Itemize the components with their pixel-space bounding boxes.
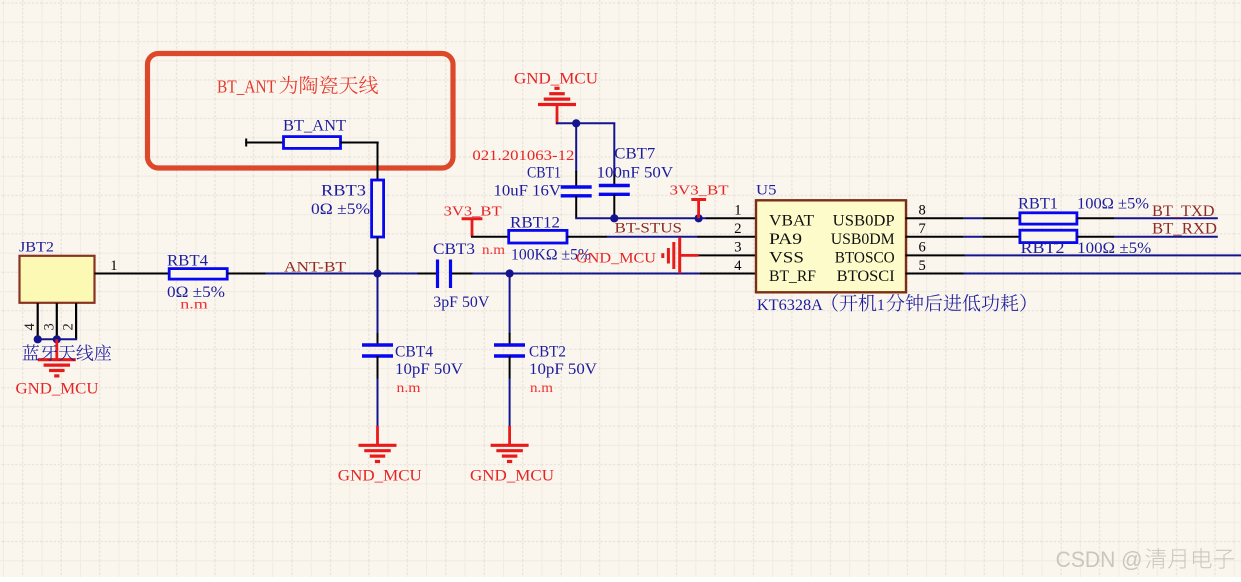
svg-text:CSDN @: CSDN @	[1056, 547, 1143, 572]
wire (to U5 pin 4)	[700, 273, 757, 275]
wire (pin8 to RBT1)	[964, 217, 982, 219]
pin 6 stub	[906, 254, 965, 256]
wire (pin7 to RBT2)	[964, 236, 982, 238]
junction (CBT2 tap)	[506, 269, 514, 277]
wire (CBT3 to CBT2 junction)	[473, 273, 511, 275]
svg-text:U5: U5	[756, 183, 777, 199]
wire (CBT4 to ground)	[377, 379, 379, 427]
resistor RBT1 body	[1020, 213, 1077, 224]
svg-text:0Ω ±5%: 0Ω ±5%	[311, 201, 370, 218]
svg-text:2: 2	[61, 323, 77, 330]
capacitor CBT4 bottom pin	[377, 356, 379, 379]
svg-text:100nF 50V: 100nF 50V	[597, 165, 674, 182]
capacitor CBT3 plates	[438, 260, 451, 289]
svg-text:GND_MCU: GND_MCU	[338, 468, 422, 485]
watermark CSDN @清月电子	[1056, 547, 1235, 572]
svg-text:BTOSCI: BTOSCI	[837, 268, 895, 285]
junction (pin4/gnd wire)	[34, 335, 42, 343]
svg-text:4: 4	[734, 258, 742, 274]
svg-text:3: 3	[41, 323, 57, 330]
svg-text:100Ω ±5%: 100Ω ±5%	[1077, 196, 1149, 213]
svg-text:CBT4: CBT4	[395, 344, 433, 361]
svg-text:n.m: n.m	[530, 381, 553, 396]
wire (pin5 to edge)	[964, 273, 1241, 275]
label 蓝牙天线座	[23, 344, 112, 361]
wire (junction to CBT3)	[378, 273, 419, 275]
pin 5 stub	[906, 273, 964, 275]
svg-text:RBT1: RBT1	[1018, 196, 1058, 213]
svg-text:GND_MCU: GND_MCU	[16, 381, 99, 398]
label 021.201063-12	[472, 148, 574, 164]
wire BT-STUS	[607, 236, 699, 238]
connector JBT2 body	[20, 256, 95, 303]
power 3V3_BT (RBT12)	[462, 219, 483, 237]
svg-text:BT_ANT: BT_ANT	[217, 77, 276, 97]
capacitor CBT3 left pin	[418, 273, 436, 275]
resistor RBT2 left pin	[982, 236, 1020, 238]
svg-text:KT6328A: KT6328A	[757, 297, 824, 314]
wire (RBT4 right pin)	[227, 273, 266, 275]
svg-text:CBT2: CBT2	[529, 344, 566, 361]
wire joining pins 2,3,4	[37, 338, 77, 340]
svg-text:1: 1	[734, 203, 741, 219]
capacitor CBT4 top pin	[377, 333, 379, 345]
svg-text:1: 1	[877, 297, 885, 314]
svg-text:3V3_BT: 3V3_BT	[444, 205, 503, 220]
resistor RBT2 right pin	[1077, 236, 1115, 238]
svg-text:10pF 50V: 10pF 50V	[529, 361, 598, 378]
wire (3V3_BT to RBT12)	[471, 236, 509, 238]
pin 4 of JBT2	[22, 303, 38, 339]
capacitor CBT2 plates	[494, 345, 525, 356]
pin 2 of JBT2	[61, 303, 77, 339]
note text BT_ANT为陶瓷天线	[217, 76, 378, 97]
capacitor CBT1 top pin	[575, 171, 577, 187]
svg-text:3: 3	[734, 240, 741, 256]
label KT6328A（开机1分钟后进低功耗）	[757, 294, 1026, 314]
svg-text:CBT3: CBT3	[433, 241, 475, 258]
resistor RBT12 right pin	[567, 236, 607, 238]
ground GND_MCU stub (CBT2)	[508, 426, 511, 445]
svg-text:RBT12: RBT12	[510, 215, 560, 232]
pin 7 stub	[906, 236, 964, 238]
svg-text:USB0DP: USB0DP	[833, 213, 895, 230]
svg-text:5: 5	[919, 258, 926, 274]
resistor RBT1 right pin	[1077, 217, 1115, 219]
resistor RBT3 body	[372, 180, 384, 237]
svg-text:021.201063-12: 021.201063-12	[472, 148, 574, 164]
wire (left stub of BT_ANT)	[245, 139, 283, 147]
ground GND_MCU symbol (top, inverted)	[538, 88, 576, 104]
capacitor CBT2 top pin	[509, 333, 511, 345]
svg-text:GND_MCU: GND_MCU	[470, 468, 554, 485]
ground GND_MCU symbol (CBT4)	[359, 445, 397, 461]
capacitor CBT4 plates	[362, 345, 393, 356]
wire (U5 pin1 stub)	[706, 217, 757, 219]
resistor RBT4 body	[169, 269, 227, 280]
capacitor CBT1 bottom pin	[575, 196, 577, 219]
wire (CBT2 to ground)	[509, 379, 511, 427]
svg-text:6: 6	[919, 240, 926, 256]
capacitor CBT7 top pin	[613, 171, 615, 186]
wire (down to CBT4)	[377, 274, 379, 335]
pin 8 stub	[906, 217, 964, 219]
junction (ANT-BT / RBT3 / CBT4)	[373, 269, 381, 277]
capacitor CBT7 bottom pin	[613, 194, 615, 218]
svg-text:GND_MCU: GND_MCU	[576, 251, 656, 267]
wire (to U5 pin 3)	[698, 254, 756, 256]
capacitor CBT7 plates	[599, 186, 630, 195]
wire (top gnd rail)	[556, 123, 615, 172]
svg-text:RBT4: RBT4	[167, 253, 208, 270]
junction (CBT7 bottom)	[610, 214, 618, 222]
svg-text:7: 7	[919, 221, 926, 237]
svg-text:VBAT: VBAT	[769, 213, 814, 230]
pin 1 of JBT2	[95, 258, 170, 274]
svg-text:CBT1: CBT1	[527, 165, 561, 182]
resistor RBT2 body	[1020, 230, 1077, 242]
wire BT_TXD	[1115, 217, 1218, 219]
ground GND_MCU symbol (JBT2)	[38, 360, 76, 376]
capacitor CBT1 plates	[561, 187, 592, 196]
resistor RBT12 body	[509, 230, 567, 243]
svg-text:3V3_BT: 3V3_BT	[670, 184, 730, 199]
capacitor CBT3 right pin	[452, 273, 473, 275]
junction (CBT1 top)	[572, 119, 580, 127]
wire (down to CBT2)	[509, 274, 511, 335]
svg-text:RBT3: RBT3	[321, 183, 366, 200]
svg-text:n.m: n.m	[180, 298, 208, 313]
svg-text:8: 8	[919, 203, 926, 219]
wire (junction to U5 pin 4)	[510, 273, 707, 275]
svg-text:3pF 50V: 3pF 50V	[433, 294, 490, 311]
wire (RBT3 bottom pin)	[377, 237, 379, 274]
wire (pin6 to edge)	[965, 254, 1241, 256]
ground GND_MCU stub (JBT2)	[55, 339, 58, 359]
svg-text:n.m: n.m	[397, 381, 421, 396]
wire (right of BT_ANT, corner down)	[341, 142, 379, 181]
note box (red rounded rectangle)	[148, 54, 454, 169]
svg-text:10uF 16V: 10uF 16V	[494, 183, 562, 200]
wire BT_RXD	[1115, 236, 1218, 238]
svg-text:JBT2: JBT2	[19, 240, 54, 256]
IC U5 body	[756, 200, 906, 292]
svg-text:1: 1	[110, 258, 117, 274]
svg-text:BT_TXD: BT_TXD	[1152, 203, 1215, 220]
svg-text:VSS: VSS	[769, 250, 804, 267]
junction (3V3_BT tap)	[695, 214, 703, 222]
ground GND_MCU symbol (U5 pin3, rotated)	[663, 237, 699, 273]
svg-text:PA9: PA9	[769, 231, 802, 248]
svg-text:BT-STUS: BT-STUS	[615, 221, 683, 237]
svg-text:USB0DM: USB0DM	[831, 231, 895, 248]
svg-text:BT_RF: BT_RF	[769, 268, 816, 285]
svg-text:GND_MCU: GND_MCU	[514, 71, 598, 88]
svg-text:4: 4	[22, 323, 38, 331]
svg-text:10pF 50V: 10pF 50V	[395, 361, 464, 378]
capacitor CBT2 bottom pin	[509, 356, 511, 379]
svg-text:CBT7: CBT7	[614, 146, 655, 163]
wire (to U5 pin 2)	[698, 236, 757, 238]
wire ANT-BT (RBT4 to RBT3 junction)	[266, 273, 379, 275]
resistor RBT1 left pin	[982, 217, 1020, 219]
junction (pin3/gnd wire)	[53, 335, 61, 343]
ground GND_MCU symbol (CBT2)	[491, 445, 529, 461]
ground GND_MCU stub (CBT4)	[376, 426, 379, 445]
svg-text:n.m: n.m	[482, 243, 505, 258]
svg-text:BTOSCO: BTOSCO	[835, 250, 895, 267]
svg-text:BT_RXD: BT_RXD	[1152, 221, 1217, 238]
power 3V3_BT (at U5 pin1)	[691, 200, 706, 219]
svg-text:2: 2	[734, 221, 741, 237]
pin 3 of JBT2	[41, 303, 57, 339]
svg-text:BT_ANT: BT_ANT	[283, 118, 347, 135]
resistor BT_ANT body	[284, 137, 341, 149]
wire VBAT rail	[575, 217, 706, 219]
ground GND_MCU stub (top)	[556, 105, 559, 125]
